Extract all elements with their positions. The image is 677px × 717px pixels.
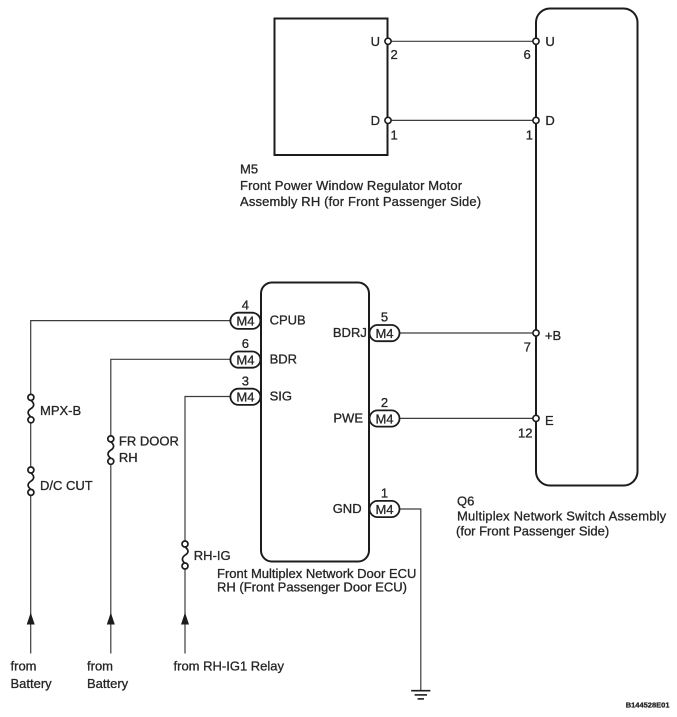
svg-text:RH-IG: RH-IG	[194, 548, 231, 563]
svg-text:BDRJ: BDRJ	[333, 325, 367, 340]
svg-text:5: 5	[381, 310, 388, 325]
connector M4 pin 6 (BDR)	[230, 336, 260, 368]
wire SIG from RH-IG1 relay	[185, 397, 231, 542]
svg-text:U: U	[371, 34, 380, 49]
arrow from Battery 2	[107, 613, 115, 625]
switch box Q6	[536, 9, 638, 486]
svg-text:Battery: Battery	[87, 676, 129, 691]
wire PWE to E	[399, 417, 536, 419]
fusible link D/C CUT	[28, 467, 34, 495]
svg-text:M4: M4	[236, 314, 254, 329]
svg-text:MPX-B: MPX-B	[40, 403, 81, 418]
motor box M5	[275, 19, 388, 156]
svg-text:BDR: BDR	[270, 351, 297, 366]
connector M4 pin 1 (GND)	[370, 486, 400, 517]
terminal motor D	[385, 117, 391, 123]
wire segment FR DOOR RH down to from-battery arrow	[110, 464, 112, 653]
svg-text:Assembly RH (for Front Passeng: Assembly RH (for Front Passenger Side)	[240, 194, 481, 209]
svg-text:1: 1	[391, 128, 398, 143]
wire BDR from battery	[111, 359, 231, 436]
wire D: motor D to switch D	[388, 119, 536, 121]
svg-text:Battery: Battery	[11, 676, 53, 691]
svg-text:CPUB: CPUB	[270, 313, 306, 328]
wire BDRJ to +B	[399, 332, 536, 334]
svg-text:from: from	[87, 659, 113, 674]
svg-text:1: 1	[381, 486, 388, 501]
terminal switch E	[533, 415, 539, 421]
terminal switch D	[533, 117, 539, 123]
svg-text:M5: M5	[240, 161, 258, 176]
svg-text:SIG: SIG	[270, 389, 292, 404]
svg-text:6: 6	[523, 47, 530, 62]
wire CPUB from battery	[31, 321, 231, 395]
wire segment RH-IG down to relay arrow	[184, 569, 186, 654]
svg-text:+B: +B	[545, 328, 561, 343]
wire segment MPX-B to D/C CUT	[30, 423, 32, 467]
connector M4 pin 5 (BDRJ)	[370, 310, 400, 342]
svg-text:7: 7	[524, 340, 531, 355]
svg-text:B144528E01: B144528E01	[626, 700, 670, 709]
svg-text:6: 6	[242, 336, 249, 351]
arrow from Battery 1	[27, 613, 35, 625]
wire U: motor U to switch U	[388, 40, 536, 42]
svg-text:D/C CUT: D/C CUT	[40, 478, 93, 493]
wire segment D/C CUT down to from-battery arrow	[30, 496, 32, 654]
svg-text:E: E	[545, 413, 554, 428]
ground symbol	[411, 691, 430, 699]
svg-text:3: 3	[242, 373, 249, 388]
svg-text:D: D	[545, 113, 554, 128]
svg-text:D: D	[371, 113, 380, 128]
svg-text:2: 2	[391, 47, 398, 62]
terminal motor U	[385, 38, 391, 44]
svg-text:Multiplex Network Switch Assem: Multiplex Network Switch Assembly	[457, 509, 667, 524]
svg-text:FR DOOR: FR DOOR	[119, 434, 179, 449]
fusible link FR DOOR RH	[108, 436, 114, 464]
svg-text:2: 2	[381, 395, 388, 410]
svg-text:RH (Front Passenger Door ECU): RH (Front Passenger Door ECU)	[217, 580, 407, 595]
connector M4 pin 3 (SIG)	[230, 373, 260, 405]
svg-text:12: 12	[518, 426, 532, 441]
svg-text:M4: M4	[375, 326, 393, 341]
svg-text:U: U	[545, 34, 554, 49]
svg-text:4: 4	[242, 297, 249, 312]
svg-text:RH: RH	[119, 450, 138, 465]
fusible link RH-IG	[182, 541, 188, 569]
svg-text:M4: M4	[375, 411, 393, 426]
svg-text:(for Front Passenger Side): (for Front Passenger Side)	[456, 524, 609, 539]
svg-text:M4: M4	[236, 390, 254, 405]
svg-text:GND: GND	[333, 501, 362, 516]
wire GND to ground	[399, 509, 421, 690]
svg-text:from RH-IG1 Relay: from RH-IG1 Relay	[174, 659, 285, 674]
svg-text:Front Power Window Regulator M: Front Power Window Regulator Motor	[240, 178, 463, 193]
terminal switch U	[533, 38, 539, 44]
svg-text:Q6: Q6	[457, 494, 474, 509]
connector M4 pin 2 (PWE)	[370, 395, 400, 427]
svg-text:M4: M4	[375, 502, 393, 517]
fusible link MPX-B	[28, 394, 34, 422]
svg-text:from: from	[11, 659, 37, 674]
svg-text:M4: M4	[236, 352, 254, 367]
arrow from RH-IG1 Relay	[181, 613, 189, 625]
svg-text:PWE: PWE	[333, 411, 363, 426]
connector M4 pin 4 (CPUB)	[230, 297, 260, 329]
terminal switch +B	[533, 330, 539, 336]
svg-text:1: 1	[526, 128, 533, 143]
ECU box	[261, 283, 369, 562]
